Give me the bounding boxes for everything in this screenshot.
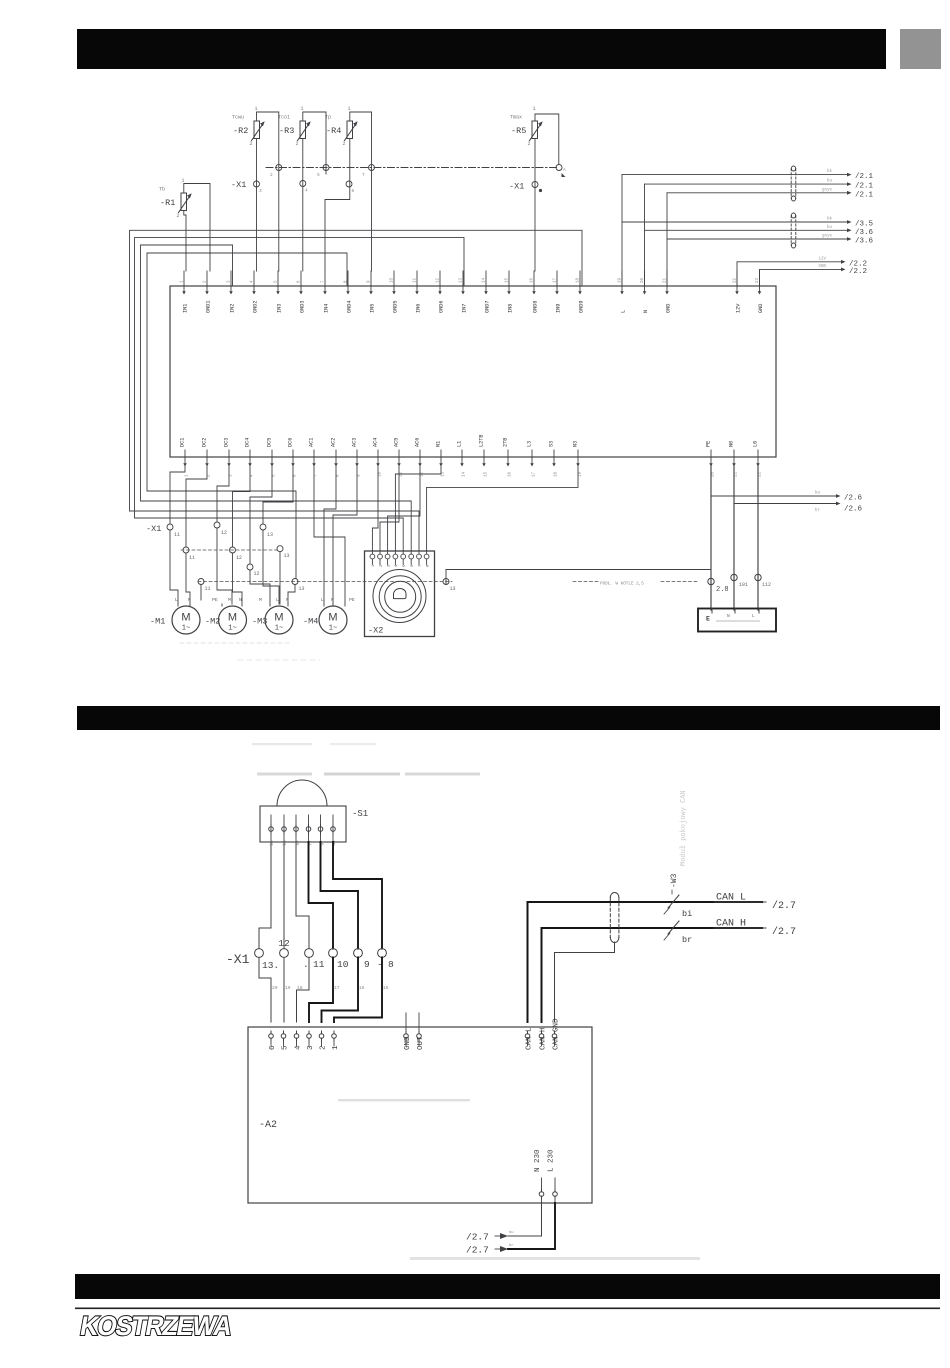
wire: pin N3 to X2 connector — [427, 466, 578, 551]
wire: pin DC5 to terminal to motor M3 — [250, 466, 272, 564]
terminal X1 row circle 4 — [329, 949, 338, 958]
middle black section bar — [77, 706, 940, 730]
controller bottom pin L0 (mains in) — [753, 441, 763, 477]
wire: R3 pin1 up over to shield terminal — [303, 112, 326, 174]
S1 pin 3 — [294, 815, 300, 846]
wire slash mark on CAN L with label bi — [664, 895, 692, 919]
svg-text:5: 5 — [282, 1045, 290, 1050]
X2 pin 8 — [424, 551, 430, 567]
X1 small wire numbers — [272, 985, 389, 991]
terminal 11b — [183, 547, 195, 561]
svg-text:2: 2 — [250, 141, 253, 147]
svg-text:19: 19 — [285, 985, 291, 991]
svg-text:1: 1 — [332, 1045, 340, 1050]
svg-text:13: 13 — [267, 532, 273, 538]
svg-text:OUT: OUT — [417, 1036, 425, 1050]
svg-text:-W3: -W3 — [670, 873, 679, 888]
terminal circle PE on PE bus — [708, 578, 729, 594]
wire branch to sheet reference /3.5 (bk) — [622, 217, 874, 229]
svg-text:19: 19 — [579, 471, 583, 477]
svg-text:17: 17 — [533, 471, 537, 477]
controller top pin 8 (GND4) — [345, 271, 353, 313]
svg-text:AC4: AC4 — [373, 438, 379, 447]
svg-text:6: 6 — [352, 188, 355, 194]
cable screen symbol over /3 wires — [791, 213, 795, 248]
dashed PE bus row 2 (protective earth in boiler) — [198, 581, 452, 583]
svg-text:AC5: AC5 — [394, 438, 400, 447]
controller top pin 18 (GND9) — [577, 271, 585, 313]
svg-text:2: 2 — [343, 141, 346, 147]
svg-text:IN5: IN5 — [370, 304, 376, 313]
controller module U1 (main PCB box) — [170, 286, 776, 457]
controller top pin 16 (GND8) — [531, 271, 539, 313]
svg-text:DC1: DC1 — [180, 438, 186, 447]
svg-text:-M3: -M3 — [252, 617, 267, 627]
svg-text:N3: N3 — [573, 441, 579, 447]
svg-text:GND2: GND2 — [253, 301, 259, 313]
svg-text:-S1: -S1 — [352, 809, 368, 819]
svg-text:1: 1 — [533, 106, 536, 112]
svg-text:1~: 1~ — [275, 625, 283, 633]
footer rule line — [75, 1308, 940, 1310]
controller bottom pin 2 (DC2) — [202, 438, 212, 477]
svg-text:AC6: AC6 — [415, 438, 421, 447]
svg-text:14: 14 — [463, 471, 467, 477]
controller top pin N (mains) — [641, 271, 649, 313]
X2 pin 4 — [393, 551, 399, 567]
A2 pin CAN GND — [552, 1018, 560, 1050]
svg-text:GND5: GND5 — [393, 301, 399, 313]
svg-text:/2.6: /2.6 — [844, 495, 863, 503]
svg-text:16: 16 — [359, 985, 365, 991]
wire: N riser from top pin N — [644, 184, 646, 286]
svg-text:IN4: IN4 — [324, 304, 330, 313]
svg-text:9: 9 — [364, 959, 370, 970]
A2 pin OUT — [417, 1013, 425, 1050]
S1 pin 6 — [331, 815, 337, 846]
A2 pin GND — [404, 1013, 412, 1050]
svg-text:M: M — [228, 612, 237, 624]
svg-text:PODŁ. W KOTLE 2,5: PODŁ. W KOTLE 2,5 — [600, 582, 644, 587]
terminal X1:12 — [214, 522, 227, 536]
svg-text:N 230: N 230 — [534, 1149, 542, 1172]
svg-text:AC3: AC3 — [352, 438, 358, 447]
svg-text:M: M — [228, 597, 231, 603]
S1 pin 1 — [269, 815, 275, 846]
svg-text:.: . — [303, 959, 309, 970]
wire: S1 pin1 to X1:13 — [259, 842, 271, 949]
wire bus D: top pin IN7 around left side to X2 — [135, 238, 465, 551]
resistor R5 (Tmax temperature sensor) — [510, 106, 543, 147]
controller top pin 2 (GND1) — [204, 271, 212, 313]
controller top pin GND — [756, 271, 764, 313]
svg-text:GND8: GND8 — [533, 301, 539, 313]
svg-text:18: 18 — [577, 277, 581, 283]
wire: R3 pin2 straight down through X1:4 to pin IN3 — [302, 139, 304, 271]
svg-text:12: 12 — [254, 571, 260, 577]
terminal X1 row circle 2 — [280, 949, 289, 958]
svg-text:10: 10 — [337, 959, 349, 970]
svg-text:M: M — [274, 612, 283, 624]
svg-text:br: br — [509, 1243, 514, 1248]
svg-text:7: 7 — [419, 565, 423, 567]
terminal X1:13 — [260, 524, 273, 538]
svg-text:2TB: 2TB — [503, 438, 509, 447]
controller top pin 14 (GND7) — [483, 271, 491, 313]
svg-text:N: N — [643, 310, 649, 313]
svg-text:13.: 13. — [262, 960, 279, 971]
controller bottom pin 4 (DC4) — [245, 438, 255, 477]
svg-text:Tco1: Tco1 — [278, 115, 290, 121]
svg-text:-R4: -R4 — [326, 126, 341, 136]
svg-text:12V: 12V — [818, 257, 826, 261]
resistor R4 (Tp temperature sensor) — [325, 106, 358, 147]
terminal X1:* with label — [509, 182, 542, 193]
terminal 11c on PE bus — [198, 579, 211, 593]
A2 pin CAN H — [539, 1027, 547, 1050]
svg-text:8: 8 — [388, 959, 394, 970]
controller bottom pin 10 (AC4) — [373, 438, 383, 477]
svg-text:GND3: GND3 — [300, 301, 306, 313]
terminal 14 on PE bus — [443, 579, 456, 593]
svg-text:Moduł pokojowy CAN: Moduł pokojowy CAN — [680, 790, 688, 866]
controller top pin 12 (GND6) — [437, 271, 445, 313]
controller bottom pin 3 (DC3) — [224, 438, 234, 477]
svg-text:13: 13 — [450, 586, 456, 592]
svg-text:GND: GND — [666, 304, 672, 313]
controller top pin 10 (GND5) — [391, 271, 399, 313]
controller top pin 5 (IN3) — [275, 271, 283, 313]
controller bottom pin 5 (DC5) — [267, 438, 277, 477]
svg-text:DC3: DC3 — [224, 438, 230, 447]
controller bottom pin 13 (N1) — [436, 441, 446, 477]
wire: pin PE down to mains terminal box — [710, 466, 712, 610]
A2 pin 3 — [307, 1031, 315, 1050]
svg-text:GND: GND — [758, 304, 764, 313]
svg-text:16: 16 — [531, 277, 535, 283]
motor M3 (1~ pump/drive) — [252, 606, 293, 634]
S1 pin 2 — [282, 815, 288, 846]
wire: CAN H (thick) — [542, 928, 763, 1022]
svg-text:-R1: -R1 — [160, 198, 175, 208]
svg-text:bk: bk — [827, 169, 833, 174]
svg-text:gnye: gnye — [822, 235, 833, 239]
wire branch to sheet reference /3.6 (bu) — [645, 225, 874, 237]
svg-text:GND9: GND9 — [579, 301, 585, 313]
wire: R2 pin2 straight down through X1:3 to pin IN2 — [256, 139, 258, 271]
module A2 (expansion module) — [248, 1027, 592, 1203]
svg-text:3: 3 — [259, 188, 262, 194]
controller top pin 1 (IN1) — [181, 271, 189, 313]
A2 pin 4 — [294, 1031, 302, 1050]
svg-text:/3.6: /3.6 — [855, 238, 874, 246]
controller top pin 6 (GND3) — [298, 271, 306, 313]
resistor R1 (Tb temperature sensor) — [159, 178, 192, 219]
gray corner square (page tab) — [900, 29, 941, 69]
motor M1..M4 lead stubs — [177, 604, 179, 606]
svg-text:gnye: gnye — [822, 188, 833, 192]
svg-text:/2.2: /2.2 — [849, 268, 867, 276]
svg-text:16: 16 — [509, 471, 513, 477]
controller bottom pin 14 (L1) — [457, 441, 467, 477]
top black title bar — [77, 29, 886, 69]
controller bottom pin 19 (N3) — [573, 441, 583, 477]
svg-text:112: 112 — [762, 582, 771, 588]
motor M1 (1~ pump/drive) — [150, 606, 200, 634]
svg-text:L2TB: L2TB — [479, 435, 485, 447]
footer black bar — [75, 1274, 940, 1299]
svg-text:Tb: Tb — [159, 187, 165, 193]
terminal X1 row circle 3 — [305, 949, 314, 958]
terminal 12b — [230, 547, 243, 561]
wire: X1:13 to A2 pin6 — [259, 958, 271, 1023]
svg-text:bu: bu — [827, 179, 833, 184]
svg-text:10: 10 — [379, 471, 383, 477]
svg-text:IN1: IN1 — [183, 304, 189, 313]
wire: pin AC6 to X2 connector — [388, 466, 420, 551]
faint scan artifact line under motors — [180, 642, 290, 644]
svg-text:1: 1 — [348, 106, 351, 112]
svg-text:4: 4 — [305, 188, 308, 194]
svg-text:18: 18 — [555, 471, 559, 477]
svg-text:12: 12 — [221, 530, 227, 536]
svg-text:PE: PE — [349, 597, 355, 603]
svg-text:1~: 1~ — [228, 625, 236, 633]
A2 pin CAN L — [525, 1027, 533, 1050]
svg-text:12V: 12V — [736, 303, 742, 313]
svg-text:GND: GND — [404, 1036, 412, 1050]
wire: pin AC1 to motor M4 PE — [314, 466, 345, 604]
controller top pin L (mains) — [619, 271, 627, 313]
wire: X1:8 to A2 pin1 (thick) — [334, 958, 382, 1023]
wire bus B: top pin IN2 column around left to X2 — [141, 245, 412, 551]
svg-text:2.8: 2.8 — [716, 586, 729, 594]
controller top pin 13 (IN7) — [460, 271, 468, 313]
controller bottom pin 6 (DC6) — [288, 438, 298, 477]
svg-text:1: 1 — [301, 106, 304, 112]
wire: R5 pin1 up over to shield end terminal A — [535, 114, 559, 165]
faint bleed text above footer bar — [410, 1257, 700, 1260]
svg-text:GND: GND — [818, 265, 826, 269]
shield terminal X1:5 — [323, 165, 329, 171]
controller bottom pin 1 (DC1) — [180, 438, 190, 477]
svg-text:L3: L3 — [527, 441, 533, 447]
svg-text:L 230: L 230 — [547, 1149, 555, 1172]
svg-text:-M4: -M4 — [303, 617, 318, 627]
svg-text:/2.1: /2.1 — [855, 183, 874, 191]
wire: pin L0 down to mains terminal box — [757, 466, 759, 610]
svg-text:12: 12 — [236, 555, 242, 561]
svg-text:bu: bu — [509, 1230, 514, 1235]
resistor R2 (Tcwu temperature sensor) — [232, 106, 265, 147]
svg-text:11: 11 — [414, 277, 418, 283]
controller bottom pin PE (mains in) — [706, 441, 716, 477]
svg-text:-A2: -A2 — [259, 1120, 277, 1131]
svg-text:gn: gn — [296, 840, 300, 846]
wire: pin DC3 to X1:12 to motor M2 M — [217, 466, 229, 522]
svg-text:Tcwu: Tcwu — [232, 115, 244, 121]
wire: S1 pin3 to X1 terminal — [296, 842, 309, 949]
A2 pin L 230 — [547, 1149, 557, 1203]
wire: L riser from top pin L — [621, 175, 623, 286]
svg-text:CAN GND: CAN GND — [553, 1018, 561, 1050]
wire: L 230 supply from sheet ref /2.7 (thick) — [466, 1203, 555, 1256]
svg-text:AC2: AC2 — [331, 438, 337, 447]
svg-text:1~: 1~ — [329, 625, 337, 633]
A2 pin 6 — [269, 1031, 277, 1050]
controller bottom pin 17 (L3) — [527, 441, 537, 477]
terminal X1:3 — [254, 181, 260, 187]
controller top pin 12V — [734, 271, 742, 313]
svg-text:/3.5: /3.5 — [855, 221, 874, 229]
svg-text:GND7: GND7 — [485, 301, 491, 313]
S1 pin 4 — [306, 815, 312, 846]
svg-text:IN6: IN6 — [416, 304, 422, 313]
net label CAN H with sheet ref /2.7 — [714, 919, 796, 939]
wire: X1 t3 to A2 pin4 — [297, 958, 310, 1023]
wire: S1 pin4 to X1:11 (thick) — [309, 842, 334, 949]
wire: CAN screen to A2 CAN GND — [555, 942, 615, 1022]
svg-text:11: 11 — [205, 586, 211, 592]
terminal X1 row circle 5 — [354, 949, 363, 958]
svg-text:-X1: -X1 — [231, 180, 246, 190]
wire: 12V riser to sheet ref /2.2 — [737, 257, 867, 286]
wire: S1 pin6 to X1:8 (thick) — [333, 842, 382, 949]
svg-text:1: 1 — [255, 106, 258, 112]
wire: pin DC6 to X1:13 to motor M3 L — [263, 466, 293, 524]
svg-text:6: 6 — [269, 1045, 277, 1050]
controller bottom pin N0 (mains in) — [729, 441, 739, 477]
controller bottom pin 15 (L2TB) — [479, 435, 489, 477]
X2 fan circles — [373, 570, 426, 623]
svg-text:22: 22 — [759, 471, 763, 477]
terminal X1:11 — [167, 524, 180, 538]
svg-text:IN2: IN2 — [230, 304, 236, 313]
KOSTRZEWA logo (outlined italic wordmark) — [78, 1310, 235, 1341]
terminal X1 row circle 6 — [378, 949, 387, 958]
svg-text:13: 13 — [460, 277, 464, 283]
controller bottom pin 7 (AC1) — [309, 438, 319, 477]
svg-text:/2.7: /2.7 — [466, 1232, 489, 1243]
controller top pin GND (mains) — [664, 271, 672, 313]
svg-text:IN9: IN9 — [556, 304, 562, 313]
svg-text:CAN L: CAN L — [526, 1027, 534, 1050]
svg-text:IN8: IN8 — [508, 304, 514, 313]
S1 pin 5 — [318, 815, 324, 846]
svg-text:2: 2 — [270, 172, 273, 178]
X2 pin 2 — [378, 551, 384, 567]
wire bus C: top pin GND4 around left to motor M3 — [147, 253, 347, 578]
shield terminal A (end of chain line) — [556, 165, 566, 178]
terminal 13b on dashed row — [277, 546, 290, 559]
svg-text:17: 17 — [334, 985, 340, 991]
terminal X1:4 — [300, 181, 306, 187]
faint bleed smudge inside A2 — [338, 1099, 470, 1101]
svg-text:L: L — [175, 597, 178, 603]
controller bottom pin 18 (S3) — [549, 441, 559, 477]
svg-text:/2.7: /2.7 — [466, 1245, 489, 1256]
controller top pin 3 (IN2) — [228, 271, 236, 313]
faint bleed-through text above S1 — [252, 743, 480, 776]
controller bottom pin 16 (2TB) — [503, 438, 513, 477]
controller bottom pin 8 (AC2) — [331, 438, 341, 477]
wire: X1:12 to A2 pin5 — [283, 958, 285, 1023]
svg-text:/2.7: /2.7 — [772, 926, 796, 938]
wire: X1:11 to A2 pin3 (thick) — [309, 958, 333, 1023]
svg-text:7: 7 — [362, 172, 365, 178]
svg-text:13: 13 — [299, 586, 305, 592]
svg-text:N: N — [239, 597, 242, 603]
resistor R3 (Tco1 temperature sensor) — [278, 106, 311, 147]
wire slash mark on CAN H with label br — [664, 921, 692, 945]
svg-text:M: M — [181, 612, 190, 624]
wire: pin AC3 to motor M4 N — [333, 466, 357, 604]
svg-text:1~: 1~ — [182, 625, 190, 633]
svg-text:N: N — [286, 597, 289, 603]
wire: R1 pin2 down to controller pin IN1 — [184, 211, 186, 271]
wire: pin AC4 to X2 connector — [372, 466, 378, 551]
svg-text:N0: N0 — [729, 441, 735, 447]
svg-text:15: 15 — [383, 985, 389, 991]
svg-text:-R3: -R3 — [279, 126, 294, 136]
svg-text:20: 20 — [712, 471, 716, 477]
svg-text:12: 12 — [437, 277, 441, 283]
svg-text:2: 2 — [320, 1045, 328, 1050]
terminal X1:6 — [346, 181, 352, 187]
controller bottom pin 11 (AC5) — [394, 438, 404, 477]
wire branch to sheet reference /3.6 (gnye) — [667, 235, 874, 246]
wire: R1 pin1 up over to controller pin GND1 — [184, 184, 210, 272]
wire: CAN L (thick) — [528, 902, 763, 1022]
wire: R4 pin1 up over to shield terminal 7, down to pin IN5 — [350, 112, 372, 271]
svg-text:15: 15 — [485, 471, 489, 477]
cable screen capsule on CAN pair — [610, 892, 619, 942]
svg-text:/2.1: /2.1 — [855, 173, 874, 181]
svg-text:11: 11 — [189, 555, 195, 561]
svg-text:M: M — [259, 597, 262, 603]
net label CAN L with sheet ref /2.7 — [714, 893, 796, 913]
svg-text:-X2: -X2 — [368, 626, 383, 636]
svg-text:21: 21 — [735, 471, 739, 477]
X2 pin 5 — [401, 551, 407, 567]
svg-text:/3.6: /3.6 — [855, 229, 874, 237]
wire: GND riser to sheet ref /2.2 — [760, 265, 868, 286]
svg-text:-M1: -M1 — [150, 617, 165, 627]
svg-text:17: 17 — [554, 277, 558, 283]
svg-text:E: E — [706, 616, 710, 623]
A2 pin N 230 — [534, 1149, 544, 1203]
wire: pin DC4 to terminal to motor M2 N — [233, 466, 251, 547]
svg-text:14: 14 — [483, 277, 487, 283]
svg-text:-M2: -M2 — [205, 617, 220, 627]
svg-text:M: M — [328, 612, 337, 624]
svg-text:GND1: GND1 — [206, 301, 212, 313]
svg-text:12: 12 — [278, 938, 290, 949]
svg-text:S3: S3 — [549, 441, 555, 447]
controller top pin 4 (GND2) — [251, 271, 259, 313]
svg-text:DC6: DC6 — [288, 438, 294, 447]
svg-text:13: 13 — [442, 471, 446, 477]
svg-text:bi: bi — [682, 909, 692, 919]
svg-text:/2.1: /2.1 — [855, 191, 874, 199]
terminal circle N — [731, 574, 748, 588]
wire: R4 pin2 down through X1:6 jog to pin IN4 — [325, 139, 350, 271]
X1 terminal numbers — [262, 938, 394, 971]
wire: branch to sheet ref /2.6 (L) — [734, 502, 863, 514]
svg-text:CAN H: CAN H — [540, 1027, 548, 1050]
wire: pin N0 down to mains terminal box — [733, 466, 735, 610]
controller top pin 7 (IN4) — [322, 271, 330, 313]
